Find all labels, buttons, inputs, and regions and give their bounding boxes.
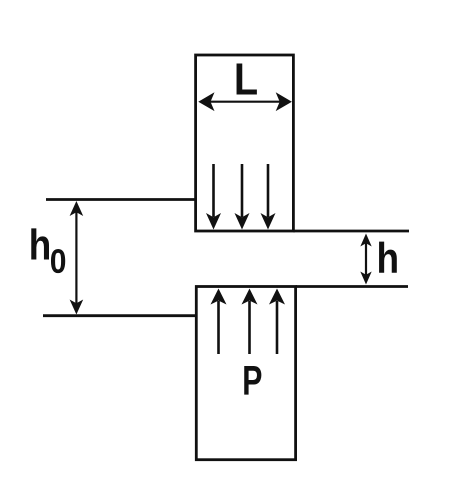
label P	[244, 366, 261, 395]
dimension arrow h (vertical, double-headed, right)	[360, 234, 371, 285]
label h0 subscript 0	[51, 249, 65, 273]
left lower gap line	[43, 314, 196, 317]
up arrow 3 (pressure P in bottom block)	[269, 289, 285, 355]
dimension arrow L (horizontal, double-headed, inside top block)	[198, 92, 292, 111]
right lower gap line	[296, 285, 408, 288]
label L	[237, 64, 257, 95]
label h0	[31, 228, 49, 259]
top block	[196, 55, 294, 231]
bottom block	[196, 287, 295, 460]
right upper gap line	[293, 230, 409, 233]
left upper gap line	[46, 198, 196, 201]
dimension arrow h0 (vertical, double-headed, left)	[70, 201, 84, 315]
up arrow 1 (pressure P in bottom block)	[211, 289, 227, 355]
down arrow 2 (load on top block)	[235, 164, 250, 230]
down arrow 1 (load on top block)	[206, 164, 221, 230]
down arrow 3 (load on top block)	[261, 164, 276, 230]
label h	[379, 242, 397, 273]
up arrow 2 (pressure P in bottom block)	[242, 289, 258, 355]
